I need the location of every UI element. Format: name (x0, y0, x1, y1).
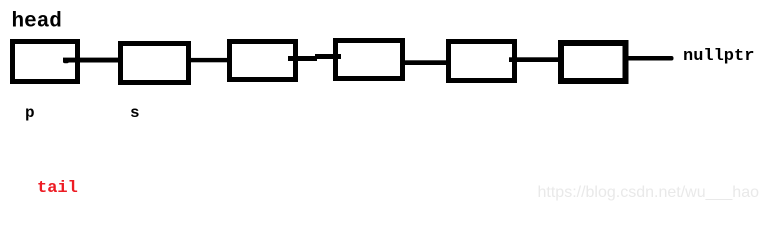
svg-text:head: head (12, 11, 62, 34)
node box N4 (336, 41, 403, 79)
wire: next pointer from N4 to N5 (402, 60, 450, 65)
wire: next pointer from N3 (lower segment) (288, 56, 317, 61)
svg-text:tail: tail (37, 179, 78, 198)
node box N3 (230, 42, 296, 80)
svg-text:nullptr: nullptr (683, 47, 754, 66)
wire: next pointer into N4 (upper segment) (315, 54, 341, 59)
wire: next pointer from N1 to N2 (63, 58, 119, 63)
node box N6 (tail node) (561, 43, 626, 81)
junction dot at start of N1 wire (63, 58, 69, 63)
wire: next pointer from N2 to N3 (188, 58, 231, 62)
node box N5 (449, 42, 515, 81)
wire: next pointer from N5 to N6 (509, 57, 560, 62)
svg-text:https://blog.csdn.net/wu___hao: https://blog.csdn.net/wu___hao (538, 184, 760, 201)
node box N2 (node s) (121, 44, 189, 83)
svg-text:p: p (25, 104, 35, 122)
wire: next pointer from N6 to nullptr (626, 56, 674, 61)
node box N1 (head node) (13, 42, 78, 82)
svg-text:s: s (130, 104, 140, 122)
